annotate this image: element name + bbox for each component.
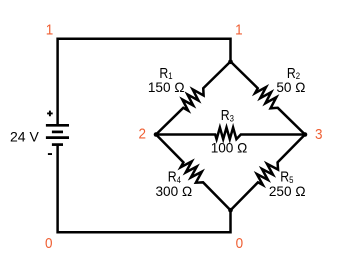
junction dot bottom vertex <box>228 208 233 213</box>
svg-text:R2: R2 <box>287 65 300 82</box>
resistor R3 zigzag edge node2 to node3 <box>156 128 305 140</box>
battery long plate <box>46 136 69 139</box>
resistor R5 zigzag edge node0 to node3 <box>231 135 306 211</box>
svg-text:100 Ω: 100 Ω <box>211 141 248 156</box>
svg-text:2: 2 <box>139 126 147 143</box>
svg-text:50 Ω: 50 Ω <box>276 80 305 95</box>
wire bottom loop: battery - to node 0 rail and up to bridge bottom <box>58 145 231 233</box>
junction dot right vertex node3 <box>303 132 308 137</box>
battery V1 24V long plate top <box>46 124 69 127</box>
junction dot top vertex <box>228 60 233 65</box>
svg-text:300 Ω: 300 Ω <box>155 184 192 199</box>
svg-text:R5: R5 <box>280 168 293 185</box>
minus sign <box>48 153 52 155</box>
junction dot left vertex node2 <box>154 132 159 137</box>
battery short plate <box>52 131 63 134</box>
svg-text:R1: R1 <box>159 65 172 82</box>
battery short plate bottom <box>52 143 63 146</box>
svg-text:250 Ω: 250 Ω <box>269 184 306 199</box>
svg-text:1: 1 <box>235 22 243 39</box>
resistor R1 zigzag edge node2 to node1 <box>156 62 231 135</box>
svg-text:R3: R3 <box>221 107 234 124</box>
svg-text:150 Ω: 150 Ω <box>148 80 185 95</box>
svg-text:0: 0 <box>236 236 244 253</box>
svg-text:3: 3 <box>315 127 323 144</box>
resistor R2 zigzag edge node1 to node3 <box>231 62 306 135</box>
svg-text:24 V: 24 V <box>10 129 39 145</box>
resistor R4 zigzag edge node2 to node0 <box>156 135 231 211</box>
plus sign <box>47 111 53 117</box>
svg-text:0: 0 <box>45 236 53 253</box>
wire top loop: battery + to node 1 rail and down to bridge apex <box>58 39 231 126</box>
svg-text:1: 1 <box>46 22 54 39</box>
svg-text:R4: R4 <box>168 168 181 185</box>
